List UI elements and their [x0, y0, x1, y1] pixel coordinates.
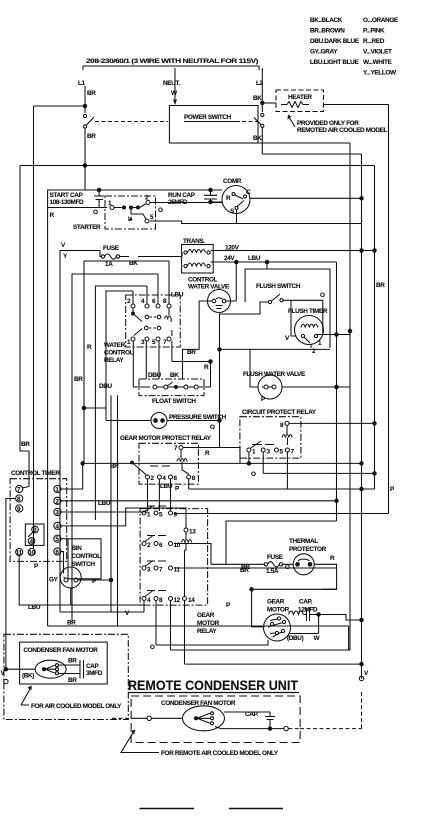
circuit protect relay K2	[240, 409, 317, 458]
svg-text:O: O	[320, 292, 325, 299]
svg-text:O: O	[150, 644, 155, 651]
svg-text:7: 7	[291, 449, 295, 456]
R box left edge	[84, 261, 169, 463]
wire block term11 right	[174, 567, 337, 569]
svg-text:R: R	[87, 344, 92, 351]
svg-text:START CAP: START CAP	[50, 192, 84, 199]
gear motor M	[264, 599, 291, 642]
svg-text:8: 8	[163, 298, 167, 305]
svg-text:R: R	[204, 364, 209, 371]
wire power switch gang dashes	[95, 121, 168, 123]
wire dashed remote box to V bus	[288, 690, 361, 729]
svg-text:BR: BR	[74, 376, 83, 383]
svg-text:R: R	[50, 212, 55, 219]
svg-text:CAP: CAP	[86, 663, 100, 670]
svg-text:8: 8	[280, 422, 284, 429]
wire gear motor feed	[252, 589, 265, 627]
condenser fan motor assembly (air cooled)	[4, 634, 128, 719]
svg-text:RUN CAP: RUN CAP	[168, 192, 196, 199]
svg-text:13: 13	[189, 529, 196, 536]
svg-text:BK: BK	[170, 372, 179, 379]
svg-text:CONTROL: CONTROL	[72, 553, 102, 560]
main box top edge	[48, 190, 222, 626]
wire relay term2 feed	[106, 291, 133, 421]
svg-text:11: 11	[16, 550, 23, 557]
svg-text:LBU.LIGHT BLUE: LBU.LIGHT BLUE	[310, 59, 359, 66]
svg-text:BR: BR	[87, 90, 96, 97]
svg-text:7: 7	[159, 567, 163, 574]
svg-text:FUSE: FUSE	[103, 245, 120, 252]
water control relay K1	[126, 261, 184, 347]
wire flush water valve leads	[250, 349, 350, 387]
svg-text:5: 5	[280, 449, 284, 456]
junction L1 lower	[83, 164, 86, 167]
wire L1 feed long horizontal	[20, 165, 375, 167]
svg-text:O...ORANGE: O...ORANGE	[363, 17, 399, 24]
wire CT term2 right	[61, 500, 337, 502]
svg-text:1.5A: 1.5A	[266, 568, 279, 575]
wire CT term6 to bin switch	[61, 552, 64, 574]
power switch box	[169, 106, 258, 144]
svg-text:BK..BLACK: BK..BLACK	[310, 17, 343, 24]
wire power switch output to bus	[258, 142, 350, 144]
svg-text:STARTER: STARTER	[73, 224, 101, 231]
right bus x388	[388, 105, 390, 514]
svg-text:BR: BR	[241, 564, 250, 571]
svg-text:6: 6	[174, 475, 178, 482]
svg-text:C: C	[246, 189, 251, 196]
svg-text:LBU: LBU	[28, 604, 41, 611]
svg-text:COMP.: COMP.	[223, 178, 242, 185]
wire cpr term7 drop	[189, 452, 375, 489]
svg-text:PROTECTOR: PROTECTOR	[289, 546, 327, 553]
wire bus336 bottom link	[226, 521, 337, 564]
svg-text:8: 8	[159, 597, 163, 604]
wire flush timer out	[318, 334, 351, 336]
remote output wire	[215, 727, 284, 729]
svg-text:BR: BR	[110, 463, 119, 470]
svg-text:O: O	[158, 207, 163, 214]
svg-text:3: 3	[147, 567, 151, 574]
svg-text:R: R	[205, 450, 210, 457]
wire float right lead riser	[210, 362, 212, 388]
svg-text:GEAR MOTOR PROTECT RELAY: GEAR MOTOR PROTECT RELAY	[120, 435, 212, 442]
svg-text:O: O	[93, 209, 98, 216]
svg-text:V: V	[61, 242, 66, 249]
svg-text:5: 5	[159, 512, 163, 519]
legend color code table	[310, 17, 399, 77]
svg-text:3MFD: 3MFD	[86, 670, 103, 677]
svg-text:(BK): (BK)	[22, 673, 34, 680]
svg-text:LBU: LBU	[248, 255, 261, 262]
wire left bus into motor	[6, 668, 35, 670]
svg-text:P: P	[390, 486, 395, 493]
svg-text:V...VIOLET: V...VIOLET	[363, 49, 392, 56]
svg-text:FOR AIR COOLED MODEL ONLY: FOR AIR COOLED MODEL ONLY	[31, 703, 122, 710]
bin control switch	[60, 539, 101, 605]
wire L1 branch left upper	[34, 105, 86, 107]
svg-text:CONTROL TIMER: CONTROL TIMER	[11, 470, 60, 477]
transformer TRANS	[182, 238, 214, 273]
svg-text:P...PINK: P...PINK	[363, 28, 385, 35]
wire relay8 out	[290, 422, 375, 424]
svg-text:4: 4	[147, 597, 151, 604]
svg-text:FOR REMOTE AIR COOLED MODEL ON: FOR REMOTE AIR COOLED MODEL ONLY	[161, 750, 279, 757]
svg-text:GEAR: GEAR	[197, 612, 215, 619]
wire cpr term1 drop	[248, 452, 250, 463]
wire float switch drops	[111, 395, 118, 626]
svg-text:DBU: DBU	[148, 372, 162, 379]
svg-text:CONTROL: CONTROL	[104, 350, 134, 357]
svg-text:CONTROL: CONTROL	[188, 277, 218, 284]
svg-text:208-230/60/1 (3 WIRE WITH NEUT: 208-230/60/1 (3 WIRE WITH NEUTRAL FOR 11…	[86, 58, 258, 65]
svg-text:1A: 1A	[105, 261, 113, 268]
svg-text:1: 1	[127, 339, 131, 346]
switch L1 power switch pole	[83, 114, 86, 117]
wire P row to bus	[185, 663, 362, 665]
wire L1 drop	[84, 86, 86, 113]
gear motor protect relay K3	[120, 435, 212, 484]
remote condenser unit box	[131, 696, 300, 743]
wire block term9 to right bus	[174, 513, 389, 515]
wire O row	[156, 640, 268, 645]
wire flush timer term2 down	[310, 345, 312, 349]
gear motor relay K4	[140, 506, 208, 606]
svg-text:BIN: BIN	[72, 545, 83, 552]
svg-text:SWITCH: SWITCH	[72, 561, 96, 568]
junction L1 upper	[83, 104, 86, 107]
svg-text:O: O	[251, 471, 256, 478]
svg-text:9: 9	[174, 512, 178, 519]
svg-text:10: 10	[28, 550, 35, 557]
svg-text:W: W	[314, 635, 321, 642]
wire CT term5 right	[61, 538, 68, 540]
svg-text:2: 2	[151, 475, 155, 482]
svg-text:DBU: DBU	[99, 383, 113, 390]
svg-text:GY: GY	[49, 577, 59, 584]
wire L2 drop	[261, 68, 263, 112]
heater box	[276, 90, 324, 112]
svg-text:PROVIDED ONLY FOR: PROVIDED ONLY FOR	[297, 120, 359, 127]
svg-text:GEAR: GEAR	[267, 599, 285, 606]
float switch feed wires	[133, 341, 210, 387]
remote unit input terminal	[147, 716, 151, 720]
flush timer	[285, 308, 328, 355]
svg-text:BR: BR	[187, 349, 196, 356]
svg-text:V: V	[285, 335, 290, 342]
wire CT term1 up	[61, 463, 83, 489]
svg-text:REMOTE CONDENSER UNIT: REMOTE CONDENSER UNIT	[128, 678, 299, 693]
wire relay box feed	[95, 286, 147, 520]
svg-text:3: 3	[141, 339, 145, 346]
svg-text:7: 7	[163, 339, 167, 346]
wire fuse row	[211, 564, 337, 589]
svg-text:5: 5	[152, 339, 156, 346]
svg-text:BR: BR	[68, 658, 77, 665]
svg-text:4: 4	[141, 298, 145, 305]
svg-text:12: 12	[174, 597, 181, 604]
flush water valve	[243, 371, 306, 399]
svg-text:3: 3	[267, 449, 271, 456]
wire block term10 right	[174, 544, 211, 565]
svg-text:4: 4	[162, 475, 166, 482]
wire 24V drop to valve	[235, 262, 237, 301]
wire starter out to run cap	[150, 202, 223, 204]
wire L1 lower drop	[84, 128, 86, 190]
compressor COMP	[222, 178, 251, 215]
svg-text:BR: BR	[67, 620, 76, 627]
wire flush bottom row	[220, 348, 331, 350]
svg-text:8: 8	[192, 475, 196, 482]
svg-text:TRANS.: TRANS.	[183, 238, 205, 245]
svg-text:V: V	[364, 670, 369, 677]
thermal protector	[289, 538, 327, 575]
wire dashed into remote box	[112, 717, 131, 719]
svg-text:REMOTED AIR COOLED MODEL: REMOTED AIR COOLED MODEL	[297, 127, 388, 134]
svg-text:BR: BR	[68, 677, 77, 684]
svg-text:6: 6	[159, 542, 163, 549]
bottom marks	[140, 808, 284, 810]
svg-text:CONDENSER FAN MOTOR: CONDENSER FAN MOTOR	[23, 647, 98, 654]
svg-text:14: 14	[188, 597, 195, 604]
starter relay	[105, 195, 156, 230]
svg-text:24V: 24V	[224, 255, 235, 262]
svg-text:S: S	[230, 208, 235, 215]
svg-text:LBU: LBU	[98, 500, 111, 507]
svg-text:R...RED: R...RED	[363, 38, 385, 45]
wire CT term3 right	[61, 511, 148, 513]
svg-text:LBU: LBU	[171, 292, 184, 299]
wire cpr term3 drop	[263, 452, 374, 473]
svg-text:POWER SWITCH: POWER SWITCH	[184, 114, 232, 121]
svg-text:108-130MFD: 108-130MFD	[50, 199, 85, 206]
svg-text:O: O	[285, 564, 290, 571]
svg-text:P: P	[175, 486, 180, 493]
wire NEUT drop	[174, 68, 176, 104]
svg-text:Y: Y	[63, 253, 68, 260]
svg-text:BR: BR	[87, 133, 96, 140]
supply bracket line	[83, 66, 259, 70]
wires protect relay to block	[148, 479, 189, 511]
wire L2 to bus	[262, 128, 361, 155]
wire fuse to trans	[100, 251, 129, 257]
switch L2 power switch pole	[261, 113, 264, 116]
svg-text:L1: L1	[78, 80, 86, 87]
wire comp bottom row	[236, 210, 238, 224]
right bus x374	[374, 166, 376, 490]
flush switch box	[245, 269, 330, 348]
right bus x336	[336, 263, 338, 521]
wire CT term11 down	[19, 556, 144, 605]
BR box left edge	[72, 274, 158, 622]
wire comp out to bus	[250, 197, 362, 199]
svg-text:2: 2	[127, 298, 131, 305]
svg-text:FLOAT SWITCH: FLOAT SWITCH	[152, 398, 196, 405]
svg-text:2: 2	[147, 542, 151, 549]
inductor and cap 12MFD	[289, 611, 304, 614]
wire CT term4 right	[61, 508, 186, 528]
svg-text:7: 7	[174, 445, 178, 452]
wire bus left x20	[20, 166, 29, 481]
svg-text:BR: BR	[21, 441, 30, 448]
svg-text:(DBU): (DBU)	[287, 635, 304, 642]
remote condenser fan motor	[161, 700, 236, 731]
wire CT term8 to left bus	[6, 499, 16, 670]
svg-text:BR: BR	[376, 282, 385, 289]
svg-text:NEUT.: NEUT.	[163, 80, 180, 87]
svg-text:Y...YELLOW: Y...YELLOW	[363, 70, 397, 77]
svg-text:1: 1	[252, 449, 256, 456]
svg-text:R: R	[330, 555, 335, 562]
wire heater feed from L2	[262, 102, 276, 104]
wire bus left x33.5	[33, 106, 35, 548]
wire bin switch out	[86, 579, 111, 581]
svg-text:25MFD: 25MFD	[168, 199, 188, 206]
svg-text:P: P	[261, 396, 266, 403]
svg-text:MOTOR: MOTOR	[267, 607, 290, 614]
svg-text:GY..GRAY: GY..GRAY	[310, 49, 338, 56]
svg-text:P: P	[226, 602, 231, 609]
control timer	[10, 470, 67, 561]
svg-text:DBU.DARK BLUE: DBU.DARK BLUE	[310, 38, 360, 45]
svg-text:1: 1	[318, 340, 322, 347]
wire cross connector y463	[84, 462, 362, 464]
wire V row	[60, 611, 144, 613]
wire 24V extension to bus	[336, 262, 338, 263]
svg-text:W...WHITE: W...WHITE	[363, 59, 393, 66]
svg-text:WATER: WATER	[104, 342, 126, 349]
svg-text:R: R	[226, 195, 231, 202]
svg-text:12MFD: 12MFD	[298, 607, 318, 614]
svg-text:6: 6	[152, 298, 156, 305]
svg-text:FLUSH TIMER: FLUSH TIMER	[288, 308, 328, 315]
float switch	[139, 379, 211, 396]
svg-text:BK: BK	[253, 95, 262, 102]
svg-text:THERMAL: THERMAL	[289, 538, 318, 545]
control water valve	[188, 277, 236, 313]
main box bottom	[48, 626, 349, 650]
wire run cap to comp	[213, 201, 223, 203]
svg-text:RELAY: RELAY	[197, 628, 217, 635]
svg-text:WATER VALVE: WATER VALVE	[188, 284, 230, 291]
wire block bottom drops	[144, 601, 185, 665]
svg-text:1: 1	[147, 512, 151, 519]
svg-text:P: P	[34, 563, 39, 570]
svg-text:BR..BROWN: BR..BROWN	[310, 28, 345, 35]
svg-text:HEATER: HEATER	[288, 94, 312, 101]
wire 24V drop to flush box	[266, 262, 268, 269]
svg-text:CIRCUIT PROTECT RELAY: CIRCUIT PROTECT RELAY	[242, 409, 317, 416]
svg-text:FUSE: FUSE	[267, 554, 284, 561]
right bus x350 from power switch	[171, 143, 351, 650]
wire starter feed	[48, 207, 107, 209]
svg-text:RELAY: RELAY	[104, 357, 124, 364]
pressure switch	[106, 413, 227, 429]
svg-text:5: 5	[150, 214, 154, 221]
svg-text:O: O	[210, 424, 215, 431]
wire heater output to right bus	[324, 104, 389, 106]
wire protect relay 7 out	[184, 448, 241, 464]
svg-text:CAP.: CAP.	[299, 599, 313, 606]
svg-text:FLUSH WATER VALVE: FLUSH WATER VALVE	[243, 371, 306, 378]
wire valve left drop BR	[183, 301, 200, 379]
svg-text:V: V	[125, 610, 130, 617]
svg-text:FLUSH SWITCH: FLUSH SWITCH	[256, 283, 301, 290]
right bus x361	[361, 154, 363, 679]
